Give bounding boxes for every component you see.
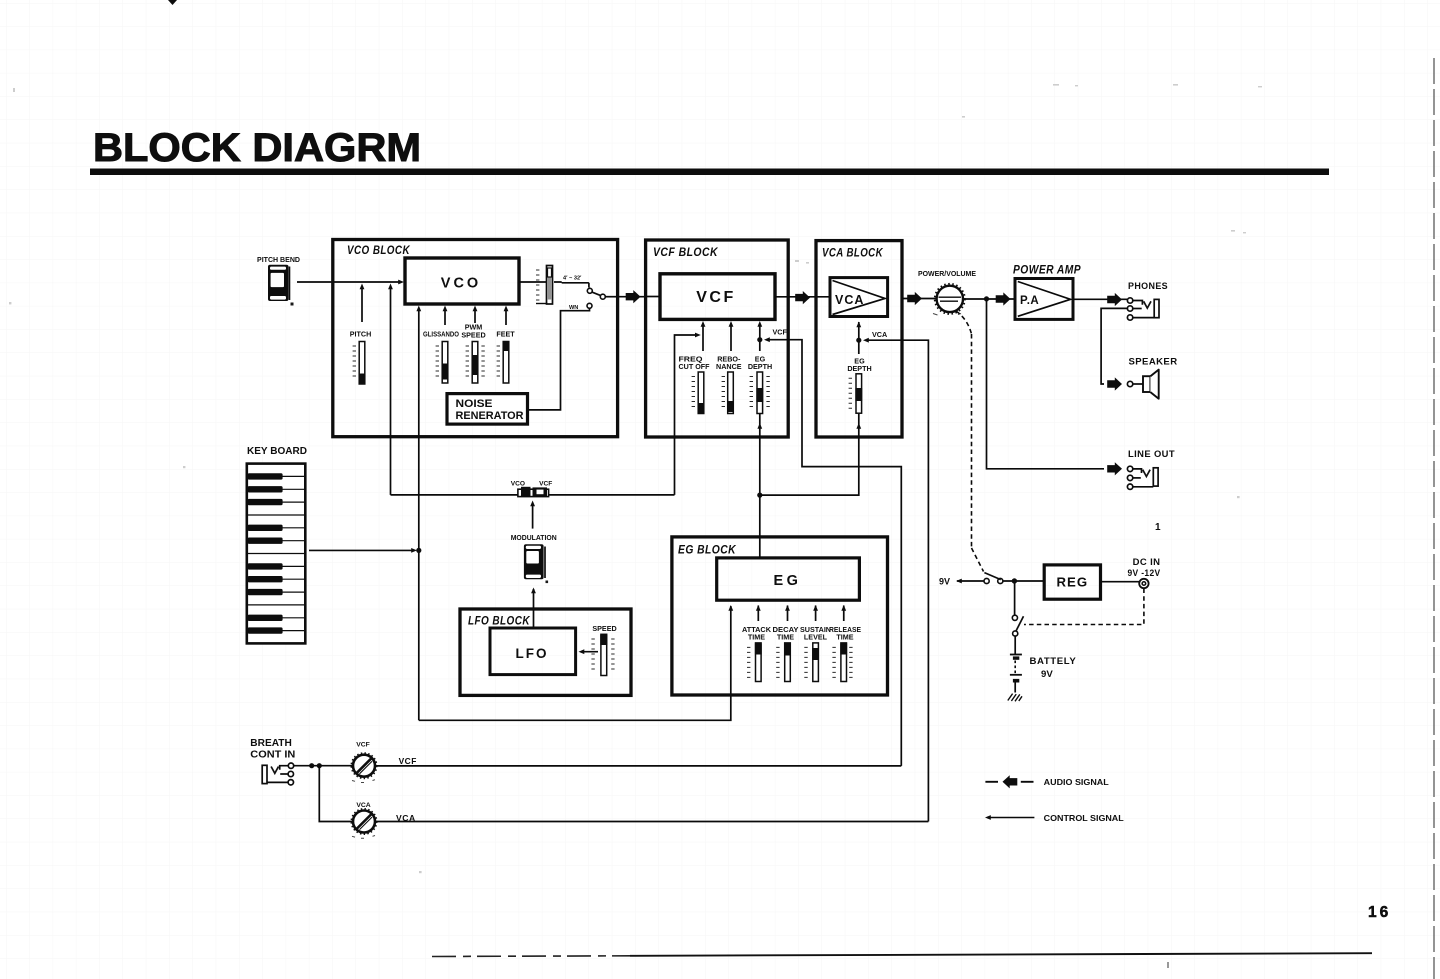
svg-text:TIME: TIME	[748, 633, 765, 642]
svg-text:SPEED: SPEED	[592, 624, 616, 633]
svg-text:VCO BLOCK: VCO BLOCK	[347, 245, 410, 257]
svg-text:DEPTH: DEPTH	[847, 364, 871, 373]
svg-text:1: 1	[1155, 522, 1161, 533]
svg-text:LFO: LFO	[516, 646, 549, 661]
svg-text:TIME: TIME	[777, 633, 794, 642]
svg-text:CONTROL SIGNAL: CONTROL SIGNAL	[1044, 813, 1124, 823]
svg-text:CUT OFF: CUT OFF	[679, 362, 711, 371]
svg-text:LFO BLOCK: LFO BLOCK	[468, 616, 530, 628]
svg-text:16: 16	[1368, 904, 1391, 921]
svg-text:POWER AMP: POWER AMP	[1013, 265, 1081, 277]
svg-text:VCF: VCF	[399, 756, 417, 766]
svg-text:GLISSANDO: GLISSANDO	[423, 330, 459, 339]
svg-text:VCF: VCF	[773, 328, 788, 337]
svg-text:9V: 9V	[939, 577, 950, 587]
svg-text:VCO: VCO	[441, 276, 481, 292]
svg-text:NOISE: NOISE	[456, 398, 493, 410]
svg-text:VCF: VCF	[356, 742, 370, 749]
svg-text:CONT IN: CONT IN	[250, 750, 295, 761]
svg-text:VCA: VCA	[835, 293, 864, 307]
svg-text:LINE OUT: LINE OUT	[1128, 449, 1175, 460]
svg-text:REG: REG	[1057, 575, 1089, 590]
svg-text:POWER/VOLUME: POWER/VOLUME	[918, 269, 976, 278]
svg-text:VCF BLOCK: VCF BLOCK	[653, 247, 718, 259]
svg-text:VCO: VCO	[511, 481, 525, 488]
svg-text:SPEED: SPEED	[461, 331, 485, 340]
svg-text:PHONES: PHONES	[1128, 281, 1168, 292]
svg-text:EG BLOCK: EG BLOCK	[678, 545, 736, 557]
svg-text:MODULATION: MODULATION	[511, 533, 557, 542]
svg-text:VCF: VCF	[696, 289, 736, 306]
svg-text:BLOCK DIAGRM: BLOCK DIAGRM	[93, 126, 421, 170]
svg-text:VCA BLOCK: VCA BLOCK	[822, 248, 883, 260]
svg-text:NANCE: NANCE	[716, 362, 742, 371]
svg-text:4′ ~ 32′: 4′ ~ 32′	[563, 276, 582, 282]
svg-text:SPEAKER: SPEAKER	[1129, 357, 1178, 368]
svg-text:PITCH: PITCH	[350, 330, 372, 339]
svg-text:VCA: VCA	[396, 813, 416, 823]
svg-text:KEY BOARD: KEY BOARD	[247, 446, 307, 457]
svg-text:VCF: VCF	[539, 481, 552, 488]
svg-text:DEPTH: DEPTH	[748, 362, 772, 371]
svg-text:VCA: VCA	[356, 802, 370, 809]
svg-text:PITCH BEND: PITCH BEND	[257, 255, 300, 264]
svg-text:9V -12V: 9V -12V	[1128, 568, 1161, 579]
svg-text:TIME: TIME	[836, 633, 853, 642]
svg-text:9V: 9V	[1041, 669, 1053, 680]
svg-text:AUDIO SIGNAL: AUDIO SIGNAL	[1044, 777, 1109, 787]
svg-text:BREATH: BREATH	[250, 738, 291, 749]
svg-text:LEVEL: LEVEL	[804, 633, 828, 642]
svg-text:P.A: P.A	[1020, 295, 1039, 307]
svg-text:EG: EG	[774, 573, 802, 589]
svg-text:BATTELY: BATTELY	[1030, 656, 1077, 667]
svg-text:DC IN: DC IN	[1133, 557, 1161, 568]
svg-text:FEET: FEET	[496, 330, 515, 339]
svg-text:RENERATOR: RENERATOR	[456, 410, 524, 422]
svg-text:VCA: VCA	[872, 330, 887, 339]
